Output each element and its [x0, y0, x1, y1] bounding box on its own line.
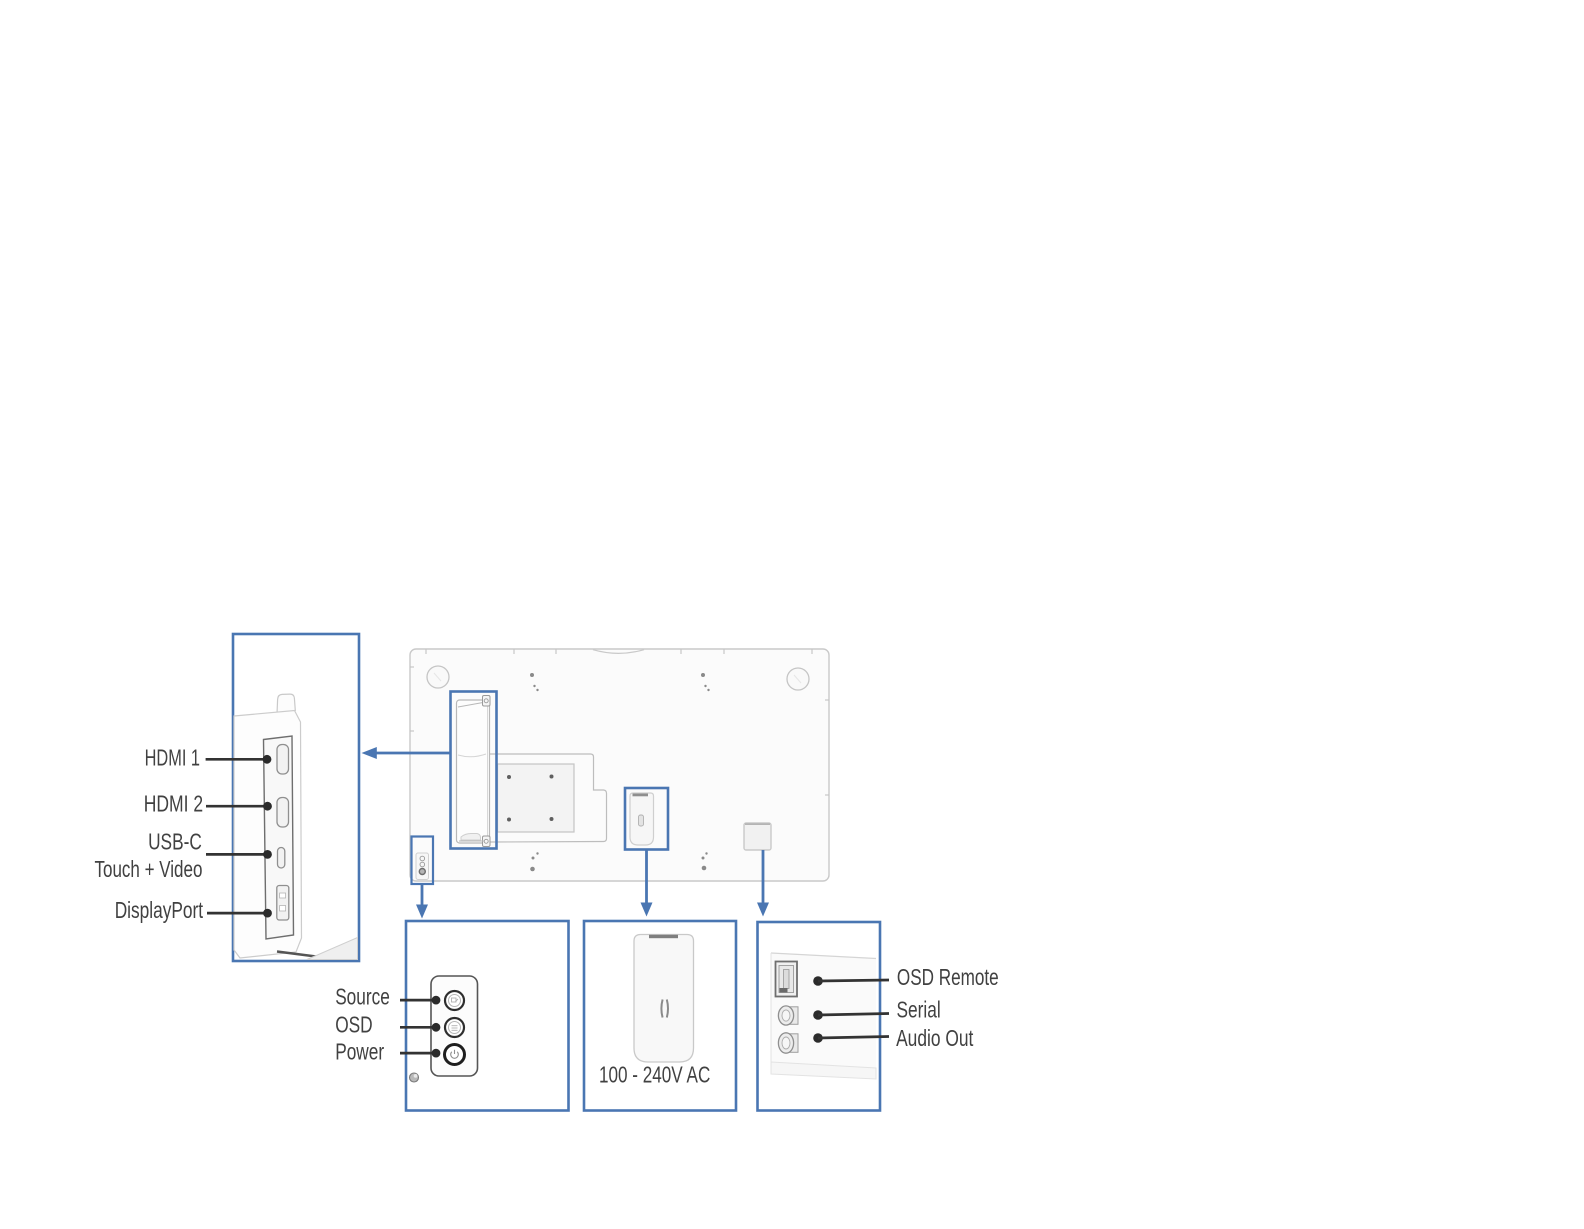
side view: bottom dash [277, 952, 316, 957]
OSD remote port [776, 962, 798, 997]
svg-text:OSD Remote: OSD Remote [897, 964, 999, 990]
buttons panel [431, 976, 478, 1076]
svg-text:Source: Source [335, 984, 390, 1010]
power supply drawing [634, 935, 694, 1063]
VESA mount plate [498, 764, 575, 832]
door foot [461, 834, 481, 841]
power inlet drawing [630, 793, 654, 845]
highlight rect: connector panel [451, 692, 497, 849]
VESA screws [507, 775, 554, 822]
svg-text:100 - 240V AC: 100 - 240V AC [599, 1062, 710, 1088]
button Power [445, 1045, 465, 1065]
svg-text:Serial: Serial [897, 997, 941, 1023]
button OSD [445, 1018, 464, 1037]
serial port [786, 1007, 798, 1025]
callout box: power [584, 921, 736, 1111]
screw cluster top-left [530, 673, 539, 691]
label Audio Out [813, 1033, 823, 1043]
screw cluster bottom-right [702, 852, 708, 870]
arrow to buttons box [421, 884, 424, 906]
side view: stand bump [277, 694, 295, 714]
port HDMI 2 [277, 798, 289, 828]
label Serial [813, 1010, 823, 1020]
arrow to power box [645, 850, 648, 903]
port HDMI 1 [277, 745, 289, 775]
callout box: side IO [758, 922, 881, 1111]
svg-text:Audio Out: Audio Out [896, 1025, 974, 1051]
connector door [457, 700, 490, 843]
port USB-C [278, 848, 285, 869]
side view: bezel corner triangle [307, 938, 358, 960]
svg-text:HDMI 2: HDMI 2 [144, 791, 203, 817]
svg-text:DisplayPort: DisplayPort [115, 897, 204, 923]
port DisplayPort [277, 886, 289, 921]
svg-text:Touch + Video: Touch + Video [95, 856, 203, 882]
svg-text:Power: Power [335, 1039, 384, 1065]
monitor edge ticks [410, 649, 829, 795]
monitor rear body [410, 649, 829, 881]
arrow to side IO box [762, 850, 765, 903]
highlight rect: OSD buttons [412, 837, 434, 885]
button Source [445, 991, 464, 1010]
side view: monitor side body [234, 711, 302, 959]
rear cavity stepped outline [489, 754, 607, 842]
side view: recessed connector panel [264, 736, 294, 939]
svg-text:USB-C: USB-C [148, 828, 202, 854]
highlight rect: power inlet [625, 788, 668, 850]
screw cluster top-right [701, 673, 710, 691]
screw cluster bottom-left [530, 852, 539, 871]
door latch top [483, 696, 491, 707]
monitor speaker circle left [427, 666, 449, 688]
arrow to side view box [375, 752, 450, 755]
label OSD Remote [813, 976, 823, 986]
door latch bottom [483, 836, 491, 847]
audio out port [786, 1034, 798, 1053]
side IO cover square [744, 823, 771, 850]
svg-text:OSD: OSD [335, 1011, 373, 1037]
OSD buttons strip drawing [416, 853, 429, 880]
side IO panel face [771, 953, 876, 1079]
monitor speaker circle right [787, 668, 809, 690]
svg-text:HDMI 1: HDMI 1 [145, 745, 200, 771]
callout box: OSD buttons [406, 921, 569, 1111]
monitor top handle arc [593, 650, 644, 654]
panel screw [410, 1073, 419, 1082]
callout box: side connector view [233, 634, 359, 961]
